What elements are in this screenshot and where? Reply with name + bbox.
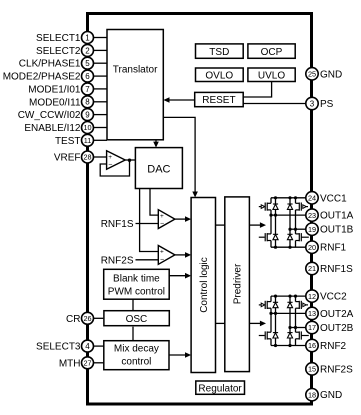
svg-text:8: 8 xyxy=(85,98,90,107)
svg-text:PS: PS xyxy=(320,99,334,110)
svg-text:21: 21 xyxy=(308,264,316,273)
svg-text:7: 7 xyxy=(85,85,90,94)
left pin labels xyxy=(3,33,81,369)
svg-text:OUT1A: OUT1A xyxy=(320,211,354,222)
svg-text:11: 11 xyxy=(84,136,92,145)
svg-text:GND: GND xyxy=(320,390,342,401)
pin 18 xyxy=(306,389,318,401)
pin 20 xyxy=(306,241,318,253)
pin 6 xyxy=(82,70,94,82)
pin 16 xyxy=(306,339,318,351)
pin 15 xyxy=(306,363,318,375)
comparator 1 xyxy=(158,210,175,229)
svg-text:9: 9 xyxy=(85,111,90,120)
svg-text:CR: CR xyxy=(66,314,80,325)
svg-text:Translator: Translator xyxy=(113,64,158,75)
Mix decay control block xyxy=(104,341,169,370)
svg-text:15: 15 xyxy=(308,365,316,374)
svg-text:18: 18 xyxy=(308,390,316,399)
pin 10 xyxy=(82,122,94,134)
svg-text:DAC: DAC xyxy=(147,164,170,176)
H-bridge 2 (channel 2) xyxy=(259,295,309,348)
wire PS pin to RESET xyxy=(243,103,306,105)
pin 1 xyxy=(82,32,94,44)
wire Translator to Control logic (arrow down) xyxy=(163,117,198,197)
OCP block xyxy=(248,44,295,58)
pin 7 xyxy=(82,83,94,95)
svg-text:RNF1S: RNF1S xyxy=(320,264,353,275)
pin 3 xyxy=(306,97,318,109)
svg-text:VREF: VREF xyxy=(54,153,81,164)
wire Translator to DAC (arrow down) xyxy=(153,140,159,148)
wire Blank time to Control logic (arrow) xyxy=(169,273,191,279)
wire pin 5 to Translator xyxy=(94,62,108,64)
svg-text:−: − xyxy=(108,162,112,169)
svg-text:ENABLE/I12: ENABLE/I12 xyxy=(24,123,81,134)
svg-text:2: 2 xyxy=(85,46,90,55)
svg-text:SELECT2: SELECT2 xyxy=(36,46,81,57)
pin 9 xyxy=(82,109,94,121)
wire op-amp output to DAC xyxy=(125,159,135,161)
svg-text:TEST: TEST xyxy=(55,136,81,147)
svg-text:+: + xyxy=(108,154,112,161)
svg-text:1: 1 xyxy=(85,33,90,42)
svg-text:MODE0/I11: MODE0/I11 xyxy=(29,97,81,108)
svg-text:16: 16 xyxy=(308,341,316,350)
wire RESET to Translator (arrow) xyxy=(163,97,194,103)
wire Control logic to Predriver (upper) xyxy=(216,224,225,226)
wire VREF pin to op-amp xyxy=(94,156,107,158)
wire pin 1 to Translator xyxy=(94,37,108,39)
left side pin wires xyxy=(94,38,108,141)
right pin circles and numbers xyxy=(306,68,318,401)
node op-amp output junction xyxy=(128,159,131,162)
svg-text:−: − xyxy=(160,257,164,264)
svg-text:4: 4 xyxy=(85,342,90,351)
svg-text:MODE1/I01: MODE1/I01 xyxy=(28,84,81,95)
svg-text:3: 3 xyxy=(310,99,315,108)
pin 21 xyxy=(306,262,318,274)
wire RNF2S to comparator 2 xyxy=(136,259,159,261)
svg-text:OUT1B: OUT1B xyxy=(320,225,354,236)
svg-text:TSD: TSD xyxy=(209,47,229,58)
svg-text:GND: GND xyxy=(320,69,342,80)
OVLO block xyxy=(196,68,244,82)
wire pin 2 to Translator xyxy=(94,49,108,51)
wire DAC to comparator 1 xyxy=(150,189,158,216)
H-bridge 1 (channel 1) xyxy=(259,196,309,249)
svg-text:Blank time: Blank time xyxy=(113,273,160,284)
Blank time / PWM control block xyxy=(104,269,170,299)
TSD block xyxy=(196,44,244,58)
svg-text:+: + xyxy=(160,249,164,256)
svg-text:RESET: RESET xyxy=(202,95,235,106)
pin 19 xyxy=(306,223,318,235)
wire Predriver to bridge 1 (arrow) xyxy=(249,222,266,228)
svg-text:12: 12 xyxy=(308,292,316,301)
right pin labels xyxy=(320,69,354,401)
RESET block xyxy=(195,92,244,106)
svg-text:CLK/PHASE1: CLK/PHASE1 xyxy=(19,59,81,70)
wire RNF1S to comparator 1 xyxy=(136,223,159,225)
svg-text:Regulator: Regulator xyxy=(198,383,242,394)
wire Predriver to bridge 2 (arrow) xyxy=(249,321,266,327)
svg-text:OUT2B: OUT2B xyxy=(320,323,354,334)
wire MTH pin to Mix decay xyxy=(94,362,104,364)
pin 11 xyxy=(82,134,94,146)
comparator 2 xyxy=(158,246,175,265)
svg-text:20: 20 xyxy=(308,243,316,252)
pin 28 xyxy=(82,151,94,163)
svg-text:5: 5 xyxy=(85,59,90,68)
wire SELECT3 pin to Mix decay xyxy=(94,345,104,347)
svg-text:Predriver: Predriver xyxy=(233,263,244,304)
svg-text:25: 25 xyxy=(308,70,316,79)
OSC block xyxy=(104,311,169,326)
wire Control logic to Predriver (lower) xyxy=(216,322,225,324)
wire Blank time to OSC xyxy=(132,299,134,310)
Translator block xyxy=(107,30,163,140)
svg-text:RNF2S: RNF2S xyxy=(101,255,134,266)
svg-text:Control logic: Control logic xyxy=(199,257,210,313)
Predriver block xyxy=(225,197,250,372)
pin 23 xyxy=(306,209,318,221)
svg-text:SELECT1: SELECT1 xyxy=(36,33,81,44)
svg-text:CW_CCW/I02: CW_CCW/I02 xyxy=(18,110,81,121)
svg-text:10: 10 xyxy=(83,123,91,132)
svg-text:−: − xyxy=(160,221,164,228)
pin 27 xyxy=(82,357,94,369)
svg-text:OSC: OSC xyxy=(126,314,148,325)
pin 25 xyxy=(306,68,318,80)
wire DAC to comparator 2 xyxy=(140,189,159,252)
svg-text:Mix decay: Mix decay xyxy=(114,343,159,354)
wire pin 9 to Translator xyxy=(94,114,108,116)
svg-text:19: 19 xyxy=(308,225,316,234)
wire UVLO to RESET xyxy=(243,82,271,98)
svg-text:27: 27 xyxy=(83,359,91,368)
svg-text:23: 23 xyxy=(308,211,316,220)
pin 12 xyxy=(306,290,318,302)
outer IC frame xyxy=(88,14,312,405)
pin 17 xyxy=(306,321,318,333)
wire comparator 1 to Control logic (arrow) xyxy=(175,216,191,222)
wire pin 11 to Translator xyxy=(94,139,108,141)
svg-text:VCC1: VCC1 xyxy=(320,193,347,204)
wire pin 7 to Translator xyxy=(94,88,108,90)
DAC block xyxy=(135,148,182,189)
wire OSC to Mix decay xyxy=(132,327,134,341)
svg-text:control: control xyxy=(121,356,151,367)
svg-text:OVLO: OVLO xyxy=(205,70,233,81)
svg-text:OUT2A: OUT2A xyxy=(320,309,354,320)
wire op-amp feedback loop xyxy=(100,160,129,176)
svg-text:MODE2/PHASE2: MODE2/PHASE2 xyxy=(3,72,81,83)
svg-text:UVLO: UVLO xyxy=(258,70,285,81)
pin 8 xyxy=(82,96,94,108)
UVLO block xyxy=(248,68,295,82)
wire CR pin to OSC xyxy=(94,317,104,319)
wire comparator 2 to Control logic (arrow) xyxy=(175,252,191,258)
left pin circles and numbers xyxy=(82,32,94,369)
wire pin 8 to Translator xyxy=(94,101,108,103)
svg-text:VCC2: VCC2 xyxy=(320,292,347,303)
svg-text:RNF2: RNF2 xyxy=(320,341,347,352)
svg-text:13: 13 xyxy=(308,309,316,318)
svg-text:24: 24 xyxy=(308,194,316,203)
Regulator block xyxy=(196,381,245,394)
svg-text:MTH: MTH xyxy=(59,358,81,369)
svg-text:SELECT3: SELECT3 xyxy=(36,342,81,353)
Control logic block xyxy=(191,198,215,373)
pin 26 xyxy=(82,312,94,324)
wire pin 10 to Translator xyxy=(94,127,108,129)
pin 4 xyxy=(82,340,94,352)
pin 2 xyxy=(82,44,94,56)
pin 13 xyxy=(306,307,318,319)
wire pin 6 to Translator xyxy=(94,75,108,77)
svg-text:PWM control: PWM control xyxy=(108,286,165,297)
svg-text:+: + xyxy=(160,213,164,220)
svg-text:28: 28 xyxy=(83,153,91,162)
svg-text:17: 17 xyxy=(308,323,316,332)
svg-text:RNF1S: RNF1S xyxy=(101,219,134,230)
svg-text:RNF1: RNF1 xyxy=(320,243,347,254)
svg-text:OCP: OCP xyxy=(261,47,283,58)
wire Mix decay to Control logic (arrow) xyxy=(169,352,191,358)
op-amp U1 (VREF buffer) xyxy=(107,151,126,169)
svg-text:RNF2S: RNF2S xyxy=(320,364,353,375)
svg-text:6: 6 xyxy=(85,72,90,81)
pin 5 xyxy=(82,57,94,69)
svg-text:26: 26 xyxy=(83,314,91,323)
pin 24 xyxy=(306,192,318,204)
